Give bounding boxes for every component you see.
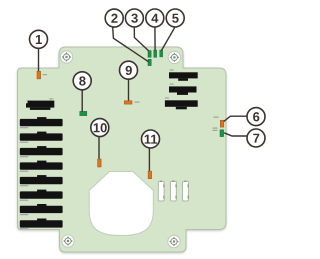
screw top-left [60,51,72,63]
callout line 8 [81,90,83,112]
callout line 2 [113,27,149,61]
screw bottom-left [62,235,74,247]
connector bar L7 [20,204,63,215]
connector bar R3 [165,97,198,109]
connector bar L3 [20,146,63,157]
connector bar L4 [20,161,63,172]
connector bar L5 [20,175,63,186]
jumper JP11 (orange, vertical) [148,171,152,179]
jumper JP9 (orange, horizontal) [124,101,139,104]
jumper JP10 (orange, vertical) [98,159,102,167]
callout line 1 [38,48,40,71]
callout line 9 [128,79,130,101]
callout circle 1 [30,30,48,48]
callout line 6 [224,116,247,121]
connector bar R1 [169,69,198,80]
LED D8 (green, horizontal) [80,111,87,115]
callout circle 4 [146,9,164,27]
callout line 7 [224,133,247,136]
callout line 3 [134,27,149,51]
LED D4 (green, top cluster middle) [154,50,157,57]
white cutout hole [89,172,153,236]
jumper JP6 (orange, right edge) [214,117,224,128]
slot 2 [171,181,177,201]
callout line 5 [162,27,175,50]
callout line 4 [154,27,156,50]
PCB board outline [18,47,227,252]
callout circle 11 [142,130,160,148]
callout circle 2 [105,9,123,27]
slot 3 [183,181,189,201]
callout circle 6 [247,108,265,126]
relay K1 (notched black component top of left column) [26,98,54,110]
connector bar L2 [20,132,63,143]
connector bar L1 [20,117,63,128]
callout circle 10 [91,119,109,137]
LED D7 (green, right edge) [213,128,224,137]
callout circle 7 [247,129,265,147]
connector bar L8 [20,219,63,229]
screw top-right [168,51,180,63]
callout circle 9 [120,61,138,79]
connector bar R2 [169,84,197,95]
callout line 10 [98,137,100,159]
LED D5 (green, top cluster right) [160,50,163,57]
callout circle 8 [73,72,91,90]
LED D3 (green, top cluster left) [148,51,151,58]
callout circle 3 [125,9,143,27]
LED D2 (green, lower of top cluster) [148,59,151,65]
connector bar L6 [20,190,63,201]
screw bottom-right [168,235,180,247]
callout circle 5 [166,9,184,27]
callout line 11 [148,148,150,171]
jumper JP1 (orange, top-left) [37,71,47,79]
slot 1 [158,181,164,201]
